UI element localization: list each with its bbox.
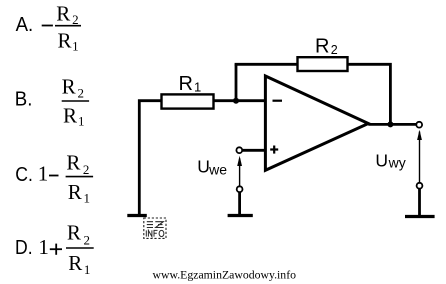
svg-text:2: 2 [331, 43, 338, 57]
answer option C fraction bar [66, 176, 94, 178]
svg-text:1: 1 [84, 262, 91, 277]
answer option C label [15, 164, 33, 186]
Uwe source arrow [237, 156, 242, 187]
wire feedback riser (junction up) [235, 64, 238, 100]
answer option D numerator R2 [67, 221, 90, 248]
svg-text:U: U [197, 157, 210, 177]
wire from R1 left lead down to left ground [139, 101, 161, 215]
footer url www.EgzaminZawodowy.info [153, 268, 297, 282]
answer option D plus sign [50, 244, 62, 255]
svg-text:2: 2 [72, 12, 79, 27]
svg-text:C.: C. [15, 164, 33, 186]
wire from input terminal to non-inverting input [242, 149, 265, 152]
node junction at inverting input [233, 98, 239, 104]
svg-text:R: R [62, 75, 76, 99]
op-amp U1 triangle [265, 76, 368, 170]
svg-text:B.: B. [15, 89, 33, 111]
input terminal (open circle, Uwe top) [236, 147, 242, 153]
wire from Uwy bottom terminal to right ground [418, 189, 421, 216]
Uwe source bottom terminal (open circle) [237, 186, 243, 192]
svg-text:R: R [179, 73, 193, 95]
answer option D denominator R1 [68, 251, 90, 277]
svg-text:R: R [66, 150, 80, 174]
Uwy arrow [417, 130, 422, 183]
svg-text:A.: A. [16, 14, 34, 36]
output terminal (open circle, Uwy top) [416, 122, 422, 128]
svg-text:R: R [67, 221, 81, 245]
svg-text:1: 1 [78, 113, 85, 128]
label R1 [179, 73, 202, 95]
answer option B fraction bar [62, 100, 89, 102]
op-amp non-inverting pin mark (+) [270, 146, 278, 154]
wire from op-amp output to output terminal [368, 123, 416, 126]
wire feedback top left segment [235, 63, 298, 66]
svg-text:R: R [56, 2, 70, 26]
svg-text:we: we [208, 162, 227, 178]
resistor R2 [298, 57, 348, 71]
wire from Uwe bottom terminal to center ground [238, 192, 241, 214]
answer option C denominator R1 [68, 180, 90, 206]
svg-text:1: 1 [72, 38, 79, 53]
svg-text:www.EgzaminZawodowy.info: www.EgzaminZawodowy.info [153, 268, 297, 282]
answer option D term 1 [38, 235, 49, 259]
svg-text:R: R [68, 180, 82, 204]
svg-text:R: R [63, 103, 77, 127]
answer option A denominator R1 [58, 28, 79, 53]
svg-text:R: R [68, 251, 82, 275]
ground (right, Uwy) [405, 215, 435, 218]
svg-text:wy: wy [388, 155, 406, 171]
label R2 [315, 36, 338, 58]
label Uwy [375, 151, 405, 171]
op-amp inverting pin mark (-) [273, 100, 283, 102]
answer option B label [15, 89, 33, 111]
ground (left) [127, 214, 147, 217]
EZ INFO watermark stamp [144, 218, 166, 238]
answer option C term 1 [38, 162, 49, 186]
answer option C minus sign [49, 175, 59, 177]
svg-text:1: 1 [84, 191, 91, 206]
answer option A fraction bar [55, 25, 81, 27]
svg-text:1: 1 [194, 79, 201, 94]
svg-text:U: U [375, 151, 388, 171]
answer option A numerator R2 [56, 2, 78, 27]
Uwy bottom terminal (open circle) [417, 183, 423, 189]
ground (center, Uwe) [228, 214, 253, 217]
svg-text:1: 1 [38, 235, 49, 259]
answer option A label [16, 14, 34, 36]
svg-text:2: 2 [83, 162, 90, 177]
answer option A minus sign [42, 25, 53, 27]
answer option C numerator R2 [66, 150, 89, 177]
svg-text:2: 2 [78, 86, 85, 101]
label Uwe [197, 157, 227, 178]
resistor R1 [162, 94, 214, 108]
wire feedback top right segment and drop to output [348, 64, 391, 124]
svg-text:R: R [58, 28, 72, 52]
node junction at output [387, 121, 393, 127]
answer option D fraction bar [66, 247, 94, 249]
wire from R1 right to op-amp inverting input [214, 99, 266, 102]
svg-text:1: 1 [38, 162, 49, 186]
svg-text:R: R [315, 36, 329, 58]
svg-text:2: 2 [84, 233, 91, 248]
svg-text:D.: D. [15, 237, 33, 259]
answer option D label [15, 237, 33, 259]
answer option B numerator R2 [62, 75, 84, 101]
answer option B denominator R1 [63, 103, 85, 128]
